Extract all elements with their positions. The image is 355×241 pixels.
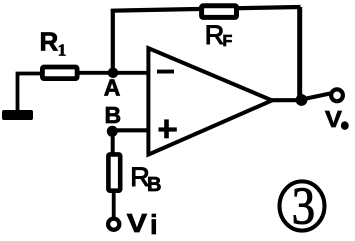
plus sign (non-inverting input)	[159, 119, 177, 138]
svg-text:F: F	[223, 33, 233, 50]
terminal Vo	[331, 89, 343, 101]
terminal Vi	[108, 219, 119, 230]
wire feedback top	[111, 7, 301, 11]
wire op-amp output to node	[268, 98, 301, 102]
label B	[105, 102, 122, 128]
wire feedback: node A up	[111, 9, 115, 73]
node B	[107, 126, 118, 137]
svg-text:B: B	[105, 102, 122, 128]
wire RB to Vi terminal	[112, 191, 116, 217]
svg-text:i: i	[150, 209, 158, 240]
svg-text:V: V	[325, 107, 342, 133]
svg-text:B: B	[147, 174, 161, 196]
label A	[104, 74, 121, 100]
svg-text:1: 1	[58, 41, 67, 60]
svg-text:R: R	[40, 27, 59, 57]
label RF	[205, 20, 233, 50]
label RB	[130, 162, 161, 196]
op-amp U1	[148, 48, 272, 154]
label Vi	[127, 208, 147, 237]
wire ground vertical	[16, 74, 20, 113]
svg-text:R: R	[205, 20, 225, 50]
wire ground to R1	[16, 72, 42, 76]
svg-text:A: A	[104, 74, 121, 100]
wire feedback down to output node	[297, 7, 302, 100]
node output junction	[296, 94, 308, 106]
resistor RF	[202, 6, 237, 18]
wire node B to non-inverting input	[112, 128, 150, 132]
wire node B to RB	[111, 131, 115, 154]
figure number 3 digit	[292, 177, 315, 235]
wire output node to Vo terminal	[302, 94, 331, 100]
resistor R1	[42, 67, 77, 79]
minus sign (inverting input)	[157, 70, 174, 74]
wire R1 to node A	[79, 71, 113, 75]
svg-text:3: 3	[292, 177, 315, 235]
label Vo	[325, 107, 349, 133]
node A	[108, 68, 119, 79]
ground	[2, 110, 33, 120]
label R1	[40, 27, 67, 60]
figure number 3 circle	[280, 181, 325, 230]
resistor RB	[108, 154, 120, 190]
svg-text:V: V	[127, 208, 147, 237]
wire node A to op-amp inverting input	[113, 71, 150, 75]
